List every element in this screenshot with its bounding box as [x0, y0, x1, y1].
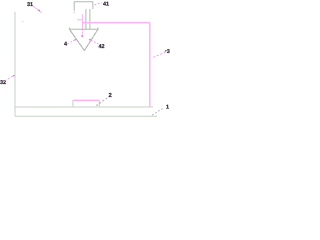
arrowhead of leader 31 — [38, 9, 41, 11]
arrow tip of leader 42 — [89, 39, 91, 40]
dashed leader for 4 — [68, 40, 75, 44]
pink speck at bracket right foot — [92, 6, 93, 7]
dashed leader for 42 — [90, 40, 99, 44]
feed pipe left wall — [85, 9, 87, 29]
hopper top bracket (part 41) — [74, 2, 93, 11]
leader line for 31 — [33, 6, 42, 13]
pink nozzle vertical — [81, 14, 83, 29]
pink flecks on right slope — [84, 32, 96, 51]
feed pipe right wall — [89, 9, 91, 29]
dashed leader for 41 — [94, 2, 101, 4]
pink nozzle stub — [77, 19, 82, 21]
pink speck at bracket left foot — [74, 12, 75, 13]
svg-text:1: 1 — [166, 105, 169, 111]
dashed leader for 32 — [5, 76, 14, 81]
base plate bottom line — [15, 115, 157, 117]
pink top duct line — [82, 22, 149, 24]
pink nozzle arrow tip — [81, 35, 83, 37]
funnel left slope — [69, 29, 84, 50]
collection box left side — [72, 100, 74, 107]
dashed leader for 3 — [153, 52, 165, 57]
stray pink speck — [22, 21, 23, 22]
left wall of chamber (part 32) — [14, 12, 16, 117]
collection box right side — [98, 100, 100, 107]
dashed leader for 1 — [152, 108, 163, 115]
pink right wall (part 3) — [149, 23, 151, 107]
dashed leader for 2 — [96, 98, 107, 106]
pink speck on base — [22, 106, 23, 107]
collection box pink top — [73, 99, 100, 101]
pink flecks on left slope — [69, 29, 84, 50]
arrow tip of leader 3 — [164, 50, 167, 52]
base plate top line (part 1) — [15, 106, 153, 108]
svg-text:3: 3 — [167, 49, 170, 55]
svg-text:41: 41 — [103, 2, 109, 8]
funnel right slope — [84, 29, 98, 50]
arrow tip of leader 32 — [13, 75, 15, 76]
svg-text:42: 42 — [99, 44, 105, 50]
funnel rim (part 4) — [69, 27, 98, 29]
svg-text:31: 31 — [27, 2, 33, 8]
arrow tip of leader 4 — [74, 39, 76, 40]
pink nozzle lower dotted part — [81, 30, 83, 36]
